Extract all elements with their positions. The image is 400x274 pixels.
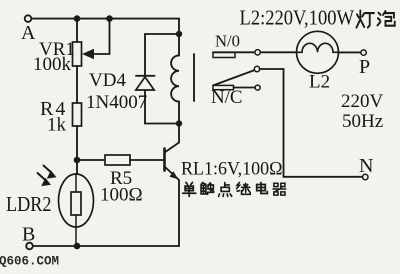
transistor Q1 emitter bbox=[165, 167, 180, 181]
svg-text:VD4: VD4 bbox=[89, 70, 126, 91]
photoresistor LDR2 envelope bbox=[59, 174, 94, 227]
label 单 (relay text char 1) bbox=[183, 182, 196, 196]
svg-text:P: P bbox=[359, 56, 370, 78]
relay contact N/C bbox=[213, 85, 234, 89]
wire contact to lamp bbox=[260, 51, 296, 53]
svg-text:N/C: N/C bbox=[211, 88, 243, 108]
svg-text:100k: 100k bbox=[33, 54, 72, 75]
resistor VR1 (potentiometer body) bbox=[73, 42, 82, 66]
svg-text:L2:220V,100W: L2:220V,100W bbox=[240, 6, 355, 30]
transistor Q1 emitter arrowhead bbox=[170, 171, 179, 179]
svg-text:B: B bbox=[22, 224, 35, 246]
contact pivot point bbox=[254, 66, 259, 71]
relay RL1 core bar bbox=[193, 54, 195, 101]
node junction wiper feed bbox=[106, 15, 113, 22]
resistor R5 bbox=[105, 155, 130, 165]
wire top rail from A to relay branch bbox=[31, 18, 179, 20]
terminal B bbox=[26, 243, 33, 250]
svg-text:220V: 220V bbox=[341, 91, 384, 112]
wire LDR bottom bbox=[75, 215, 77, 246]
diode VD4 triangle bbox=[136, 77, 154, 90]
svg-text:Q606.COM: Q606.COM bbox=[0, 255, 59, 269]
node junction top-left (VR1 top) bbox=[74, 15, 81, 22]
label 触 (relay text char 2) bbox=[201, 182, 214, 194]
photoresistor LDR2 body bbox=[71, 192, 81, 215]
wire bottom rail bbox=[33, 245, 179, 247]
terminal N bbox=[363, 174, 368, 179]
relay RL1 coil bbox=[171, 34, 179, 124]
contact point N/C bbox=[255, 85, 260, 90]
svg-text:N/0: N/0 bbox=[215, 32, 240, 51]
node R5 branch bbox=[74, 157, 81, 164]
svg-text:L2: L2 bbox=[309, 72, 330, 93]
transistor Q1 base bar bbox=[163, 149, 166, 171]
relay contact N/O bbox=[213, 51, 255, 53]
VR1 wiper arrowhead bbox=[82, 49, 94, 59]
svg-text:N: N bbox=[359, 155, 373, 177]
svg-text:RL1:6V,100Ω: RL1:6V,100Ω bbox=[181, 160, 283, 180]
label 点 (relay text char 3) bbox=[219, 182, 232, 196]
wire R5 left bbox=[77, 159, 105, 161]
transistor Q1 collector bbox=[165, 127, 180, 153]
wire emitter down bbox=[178, 180, 180, 246]
lamp L2 filament bbox=[297, 43, 339, 52]
lamp L2 bulb bbox=[297, 31, 339, 73]
label 电 (relay text char 5) bbox=[257, 182, 268, 193]
light arrow 1 bbox=[44, 166, 52, 173]
contact point N/O bbox=[255, 50, 260, 55]
svg-text:LDR2: LDR2 bbox=[6, 192, 52, 216]
svg-text:1k: 1k bbox=[47, 115, 67, 136]
svg-text:50Hz: 50Hz bbox=[342, 111, 383, 132]
wire VR1 to R4 bbox=[76, 66, 78, 103]
svg-text:A: A bbox=[21, 22, 36, 44]
diode VD4 bottom wire bbox=[145, 90, 179, 124]
terminal A bbox=[25, 15, 32, 22]
svg-text:100Ω: 100Ω bbox=[100, 185, 143, 206]
wire R5 to base bbox=[130, 159, 164, 161]
label 继 (relay text char 4) bbox=[237, 182, 251, 194]
diode VD4 branch wire top bbox=[145, 34, 179, 76]
label 器 (relay text char 6) bbox=[273, 183, 286, 195]
wire VR1 top lead bbox=[76, 19, 78, 42]
diode VD4 cathode bar bbox=[136, 75, 155, 77]
node coil top bbox=[176, 31, 182, 37]
resistor R4 bbox=[73, 103, 82, 126]
wire lamp to P bbox=[339, 51, 361, 53]
wire common to N bbox=[260, 69, 363, 177]
wire N/C to contact point bbox=[234, 87, 256, 89]
wire top rail down to coil bbox=[178, 19, 180, 34]
node bottom rail / LDR bbox=[74, 243, 81, 250]
light arrow 2 bbox=[38, 173, 46, 180]
wire R4 to LDR node bbox=[76, 126, 78, 175]
svg-text:1N4007: 1N4007 bbox=[86, 92, 147, 113]
relay moving arm bbox=[213, 70, 254, 85]
wire into LDR top bbox=[75, 175, 77, 193]
terminal P bbox=[361, 50, 366, 55]
wire VR1 wiper arm bbox=[91, 19, 110, 54]
label 灯 (lamp char) bbox=[356, 11, 374, 28]
node coil bottom bbox=[176, 120, 182, 126]
label 泡 (bulb char) bbox=[377, 11, 394, 26]
